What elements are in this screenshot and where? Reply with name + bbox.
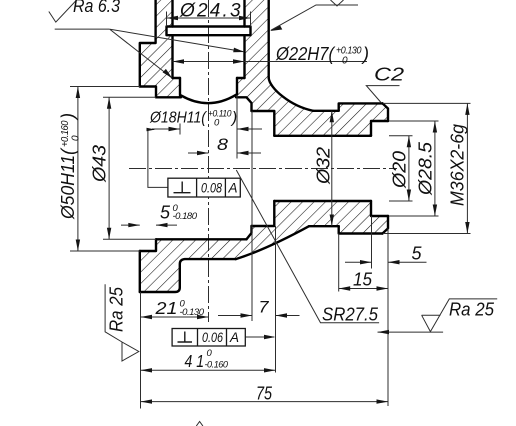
flange face lower segment [139,251,141,292]
Ø43 bore top surface right part + chamfer + shoulder [236,97,252,111]
datum A mark bottom [196,422,203,426]
hatch left boss wall and upper flange [140,0,180,97]
svg-text:Ø20: Ø20 [389,150,410,189]
feature control frame 1 [168,178,240,197]
bore wall Ø22 right [243,0,245,78]
svg-text:C2: C2 [374,64,405,85]
end face lower segment + chamfer [383,216,389,234]
end face upper segment [383,103,389,121]
feature control frame 2 [172,329,245,347]
svg-text:0: 0 [342,56,348,67]
boss outer wall right [268,0,270,78]
SR27.5 leader [236,170,379,323]
undercut top surface [313,110,339,112]
Ø24.3 dimension [166,12,168,27]
svg-text:4 1: 4 1 [185,351,205,371]
roughness tick on shelf top right [331,0,344,6]
Ø32 dimension [331,111,333,226]
svg-text:Ø28.5: Ø28.5 [415,141,436,196]
bottom transition curve spigot to flange [236,226,309,259]
svg-text:7: 7 [259,298,270,317]
leader to Ø22 bore wall [109,29,244,52]
svg-text:+0.160: +0.160 [60,120,71,147]
leader to Ø22 bore left wall corner [110,29,172,78]
svg-text:-0.130: -0.130 [180,307,205,318]
bore wall Ø18 left [179,78,181,95]
svg-text:SR27.5: SR27.5 [322,304,379,325]
svg-text:A: A [228,181,238,196]
svg-text:0.08: 0.08 [201,181,222,196]
svg-text:Ø50H11(: Ø50H11( [57,147,78,220]
svg-text:-0.180: -0.180 [173,211,198,222]
chamfer + shoulder bottom [247,226,252,239]
Ø43 bore bottom surface [156,238,247,240]
svg-text:Ø24.3: Ø24.3 [179,1,243,22]
socket mouth bottom: Ø50 surface + step [140,239,156,251]
svg-text:): ) [361,44,369,64]
svg-text:75: 75 [256,383,273,404]
groove Ø24.3 [167,27,251,36]
counterbore bottom face + surface [371,201,388,216]
5 dimension right [345,261,372,263]
Ø43 bore top surface left part [156,96,181,98]
bore floor intersection arc [181,95,236,103]
bore shoulder Ø22 to Ø18 [173,77,245,79]
svg-text:8: 8 [217,135,229,154]
41-0.160 dimension [141,369,276,371]
svg-text:0: 0 [207,348,213,359]
Ø32 chamber top + bottom face wall [252,111,275,136]
svg-text:+0.130: +0.130 [336,46,362,57]
extension lines bottom [140,292,142,409]
svg-text:): ) [57,113,78,121]
svg-text:Ra 25: Ra 25 [106,286,127,332]
undercut bottom surface [309,225,339,227]
Ra6.3 symbol top left [49,0,77,22]
frame 2 leader [245,336,274,338]
Ø28.5 dimension right [389,120,439,122]
svg-text:Ø43: Ø43 [89,144,110,183]
Ra 25 left symbol rotated [105,284,139,361]
Ø43 dimension left [103,96,156,98]
svg-text:Ø22H7(: Ø22H7( [275,44,336,64]
Ø18H11 dimension [179,124,181,135]
frame 1 leader [148,130,168,188]
boss outer wall left [140,0,156,87]
svg-text:0.06: 0.06 [202,330,223,345]
svg-text:Ra 6.3: Ra 6.3 [73,0,120,16]
7 dimension [218,315,252,317]
Ø22H7 dimension line with outward arrows [173,61,368,63]
bore wall Ø22 left [171,0,173,78]
Ø20 dimension right [389,135,413,137]
svg-text:M36X2-6g: M36X2-6g [447,123,468,206]
Ø20 bore top surface [274,135,371,137]
21-0.130 dimension [141,316,209,318]
5-0.180 depth dimension [121,224,140,226]
svg-text:0: 0 [214,118,220,129]
Ø32 chamber bottom + bottom face wall [252,201,275,226]
svg-text:0: 0 [71,135,82,141]
svg-text:5: 5 [412,243,423,264]
M36X2-6g dimension right [383,102,471,104]
svg-text:+0.110: +0.110 [208,109,232,120]
svg-text:15: 15 [353,269,373,290]
lower shelf [140,259,236,292]
15 dimension [339,288,388,290]
thread bottom surface [339,226,383,233]
svg-text:): ) [230,110,237,127]
thread top surface [339,103,383,110]
counterbore top face + surface [371,121,388,136]
horizontal centerline [129,168,397,170]
svg-text:21: 21 [154,298,177,318]
top transition curve boss to spigot [269,78,313,111]
Ø20 bore bottom surface [274,200,371,202]
75 dimension [141,401,389,403]
8 dimension [188,152,209,154]
svg-text:A: A [229,330,239,345]
svg-text:-0.160: -0.160 [205,360,229,371]
svg-text:Ø32: Ø32 [313,146,334,185]
hatch lower body and flange [140,201,388,292]
svg-text:Ra 25: Ra 25 [449,299,495,320]
Ra 25 right symbol [378,331,444,333]
svg-text:5: 5 [160,203,171,223]
Ra6.3 shelf [55,28,110,30]
socket mouth top: Ø50 surface + step [140,87,156,98]
vertical bore axis centerline [208,0,210,322]
hatch right boss wall and upper body to spigot [237,0,388,136]
Ø50H11 dimension left [70,86,140,88]
bore wall Ø18 right [236,78,238,95]
svg-text:Ø18H11(: Ø18H11( [149,110,208,127]
